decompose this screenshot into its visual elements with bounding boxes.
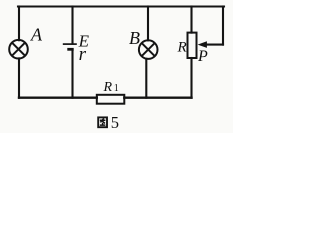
svg-text:P: P xyxy=(197,48,208,65)
rheostat slider arrowhead xyxy=(198,41,207,48)
lamp A xyxy=(9,40,28,59)
wire right vertical xyxy=(222,7,224,45)
wire battery lower xyxy=(71,50,73,97)
wire rheostat lower xyxy=(190,58,192,98)
wire slider horizontal xyxy=(206,44,224,46)
wire lamp B lower xyxy=(145,59,147,98)
svg-text:1: 1 xyxy=(114,83,119,94)
battery E short plate xyxy=(67,48,73,51)
svg-text:R: R xyxy=(177,39,187,55)
rheostat R body xyxy=(188,33,197,58)
battery E long plate xyxy=(63,43,77,45)
wire bottom right xyxy=(124,96,191,98)
svg-text:R: R xyxy=(103,80,113,95)
wire left upper xyxy=(18,7,20,41)
wire top bus xyxy=(18,5,224,7)
wire lamp B upper xyxy=(147,7,149,41)
wire bottom left xyxy=(19,96,97,98)
wire left lower xyxy=(18,58,20,97)
lamp B xyxy=(139,40,158,59)
svg-text:A: A xyxy=(30,25,43,45)
svg-text:r: r xyxy=(79,44,87,65)
resistor R1 body xyxy=(97,95,125,104)
wire battery upper xyxy=(71,7,73,44)
wire rheostat upper xyxy=(190,7,192,33)
svg-text:5: 5 xyxy=(111,113,119,132)
caption: hanzi tu (figure) drawn as paths xyxy=(98,117,107,127)
svg-text:B: B xyxy=(129,28,140,48)
